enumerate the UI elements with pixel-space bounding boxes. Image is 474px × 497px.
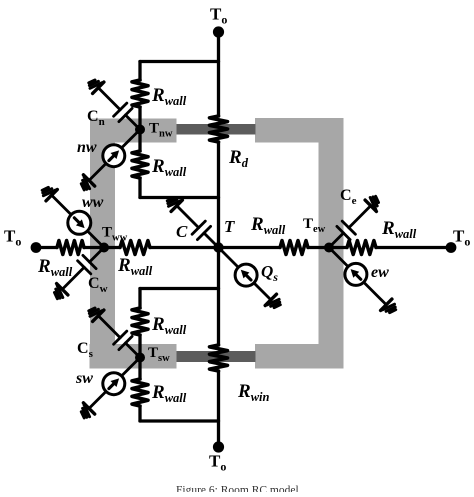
current source nw — [89, 130, 140, 181]
wire: north loop left upper — [138, 62, 141, 81]
svg-text:ww: ww — [82, 194, 104, 211]
svg-text:To: To — [210, 5, 227, 27]
north-east wall band (floor plan) — [255, 118, 344, 143]
wire: Rwall to right To — [376, 246, 451, 249]
node To (bottom) — [213, 441, 224, 452]
resistor R_wall (south lower) — [132, 379, 148, 406]
wire: north loop left middle — [138, 107, 141, 151]
svg-text:Rwall: Rwall — [250, 214, 286, 237]
svg-text:Rwall: Rwall — [151, 156, 187, 179]
wire: south loop left upper — [138, 289, 141, 309]
capacitor C_s — [126, 343, 141, 358]
wire: south loop left middle — [138, 335, 141, 379]
svg-text:nw: nw — [77, 139, 97, 156]
resistor R_wall (east outer) — [347, 241, 376, 255]
svg-text:T: T — [224, 217, 235, 236]
svg-text:To: To — [209, 452, 226, 474]
wire: south loop top — [140, 287, 219, 290]
south wall band (floor plan) — [90, 344, 177, 369]
node To (left) — [31, 242, 42, 253]
current source Q_s — [219, 248, 271, 300]
resistor R_wall (north upper) — [132, 80, 148, 107]
svg-text:Rwall: Rwall — [117, 255, 153, 278]
node To (right) — [446, 242, 457, 253]
svg-text:Figure 6: Room RC model: Figure 6: Room RC model — [176, 485, 299, 493]
svg-text:Rd: Rd — [228, 147, 249, 170]
wire: Rwall to T — [150, 246, 219, 249]
wire: north loop left lower — [138, 178, 141, 198]
node T (center) — [213, 242, 223, 252]
wire: T to Rwall east — [219, 246, 281, 249]
capacitor C_n — [126, 115, 141, 130]
capacitor C_e — [329, 233, 344, 248]
current source sw — [89, 358, 140, 409]
node T_nw — [135, 125, 145, 135]
resistor R_wall (west outer) — [57, 241, 84, 255]
svg-text:C: C — [176, 222, 188, 241]
resistor R_d — [210, 116, 228, 142]
wire: Rwall to Tew to Rwall — [308, 246, 347, 249]
node T_ww — [99, 243, 109, 253]
resistor R_wall (north lower) — [132, 151, 148, 178]
svg-text:ew: ew — [371, 264, 389, 281]
svg-text:Rwall: Rwall — [151, 85, 187, 108]
current source ww — [52, 195, 104, 247]
resistor R_wall (south upper) — [132, 308, 148, 335]
node T_sw — [135, 353, 145, 363]
wire: south loop left lower — [138, 406, 141, 421]
east wall band (floor plan) — [319, 118, 344, 369]
wire: R_d to T to R_win — [217, 142, 220, 345]
wire: Rwall to Tww to Rwall — [84, 246, 120, 249]
north wall band (floor plan) — [90, 119, 177, 143]
west wall band (floor plan) — [90, 119, 115, 369]
door bar (dark) for R_d — [177, 124, 256, 135]
svg-text:Rwall: Rwall — [381, 218, 417, 241]
svg-text:To: To — [4, 227, 21, 249]
wire: left To to Rwall — [36, 246, 57, 249]
capacitor C (indoor air) — [204, 233, 219, 248]
south-east wall band (floor plan) — [255, 344, 344, 369]
wire: north loop top — [140, 60, 219, 63]
current source ew — [329, 248, 386, 305]
svg-text:Qs: Qs — [261, 262, 278, 284]
capacitor C_w — [90, 248, 105, 263]
svg-text:Rwall: Rwall — [37, 256, 73, 279]
svg-text:Rwall: Rwall — [151, 382, 187, 405]
resistor R_wall (east inner) — [280, 241, 308, 255]
wire: top To to R_d — [217, 32, 220, 116]
node T_ew — [324, 243, 334, 253]
svg-text:Rwall: Rwall — [151, 314, 187, 337]
node To (top) — [213, 26, 224, 37]
svg-text:Rwin: Rwin — [237, 381, 269, 404]
resistor R_wall (west inner) — [120, 241, 150, 255]
window bar (dark) for R_win — [177, 351, 256, 362]
svg-text:To: To — [453, 227, 470, 249]
wire: south loop bottom — [140, 419, 219, 422]
wire: R_win to bottom To — [217, 371, 220, 447]
svg-text:sw: sw — [75, 370, 93, 387]
wire: north loop bottom — [140, 196, 219, 199]
resistor R_win — [210, 345, 228, 371]
